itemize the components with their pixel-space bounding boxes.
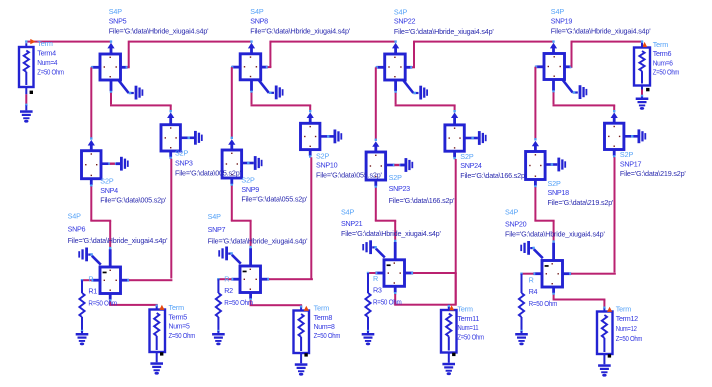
SNP21 left pin stub xyxy=(375,272,384,275)
svg-text:File='G:\data\005.s2p': File='G:\data\005.s2p' xyxy=(100,196,167,205)
SNP8 pin3 stub (left) xyxy=(231,66,240,69)
SNP17 pin2 + ground xyxy=(624,129,646,143)
wire SNP6 to Term5 xyxy=(109,301,158,307)
svg-text:S4P: S4P xyxy=(208,212,222,221)
wire top chain xyxy=(414,41,554,43)
label Term12 xyxy=(616,304,643,343)
svg-text:File='G:\data\Hbride_xiugai4.s: File='G:\data\Hbride_xiugai4.s4p' xyxy=(341,229,441,238)
Term4 pin2 stub xyxy=(25,87,33,94)
wire SNP20 right to node xyxy=(571,273,616,275)
SNP6 right pin stub xyxy=(121,279,130,282)
SNP10 pin1 (top) xyxy=(307,112,314,123)
svg-text:S2P: S2P xyxy=(460,152,474,161)
SNP10 pin3 stub (bottom) xyxy=(309,150,312,158)
svg-text:SNP20: SNP20 xyxy=(505,219,527,228)
SNP7 bottom pin stub xyxy=(249,293,252,301)
S4P SNP20 box xyxy=(542,261,563,288)
wire SNP19 to Term6 (top wire) xyxy=(572,41,643,43)
SNP17 pin1 (top) xyxy=(611,112,618,123)
svg-text:Z=50 Ohm: Z=50 Ohm xyxy=(457,333,484,342)
svg-text:R=50 Ohm: R=50 Ohm xyxy=(224,298,253,307)
svg-text:SNP6: SNP6 xyxy=(68,225,86,234)
svg-text:R4: R4 xyxy=(529,287,538,296)
wire SNP7 to Term8 xyxy=(250,300,303,308)
svg-text:SNP22: SNP22 xyxy=(394,17,416,26)
svg-text:SNP7: SNP7 xyxy=(208,225,226,234)
svg-text:Term: Term xyxy=(169,303,185,312)
svg-text:Num=5: Num=5 xyxy=(169,322,190,331)
SNP21 right pin stub xyxy=(405,272,414,275)
svg-text:S2P: S2P xyxy=(389,173,403,182)
SNP9 pin3 stub (bottom) xyxy=(230,178,233,186)
label R1 xyxy=(88,275,117,308)
label Term5 xyxy=(169,303,196,340)
wire SNP21 right to node xyxy=(413,272,457,274)
Term Term4 Num=4 Z=50 Ohm xyxy=(19,39,36,87)
wire SNP6 right to node xyxy=(129,279,172,281)
wire SNP5 right to top wire xyxy=(127,41,129,69)
wire SNP19 right to top wire xyxy=(571,41,573,68)
wire SNP19 to SNP17 xyxy=(553,92,616,112)
svg-text:S2P: S2P xyxy=(620,150,634,159)
ground (SNP8 pin4) xyxy=(259,80,284,99)
svg-text:Z=50 Ohm: Z=50 Ohm xyxy=(169,331,196,340)
svg-text:S4P: S4P xyxy=(394,7,408,16)
svg-text:SNP3: SNP3 xyxy=(175,158,193,167)
wire SNP23 to SNP21 xyxy=(375,188,397,242)
wire node down (col3) xyxy=(455,273,457,305)
label SNP3 xyxy=(175,149,242,178)
S4P SNP21 box xyxy=(384,260,405,287)
svg-text:File='G:\data\Hbride_xiugai4.s: File='G:\data\Hbride_xiugai4.s4p' xyxy=(250,27,350,36)
svg-text:SNP18: SNP18 xyxy=(548,188,570,197)
svg-text:S2P: S2P xyxy=(100,177,114,186)
svg-text:Term: Term xyxy=(457,305,473,314)
ground (SNP6) xyxy=(78,248,101,265)
svg-text:File='G:\data\Hbride_xiugai4.s: File='G:\data\Hbride_xiugai4.s4p' xyxy=(109,27,209,36)
SNP6 bottom pin stub xyxy=(109,294,112,302)
S4P SNP19 box xyxy=(544,54,565,80)
Term12 pin2 stub xyxy=(603,354,611,360)
wire SNP19 to SNP18 xyxy=(534,67,536,141)
wire Term6 to ground xyxy=(641,90,643,98)
svg-text:Num=8: Num=8 xyxy=(314,322,335,331)
svg-text:S2P: S2P xyxy=(548,179,562,188)
SNP6 pin1 (top) xyxy=(109,249,112,267)
svg-text:S4P: S4P xyxy=(505,208,519,217)
wire SNP4 to SNP6 xyxy=(90,186,111,249)
wire SNP18 to SNP20 xyxy=(534,187,554,243)
svg-text:Num=4: Num=4 xyxy=(37,58,57,67)
wire top chain xyxy=(270,41,395,43)
SNP20 pin1 (top) xyxy=(552,243,555,261)
svg-text:SNP4: SNP4 xyxy=(100,186,118,195)
SNP18 pin2 + ground xyxy=(545,158,566,172)
SNP4 pin2 + ground xyxy=(101,157,129,171)
svg-text:R=50 Ohm: R=50 Ohm xyxy=(373,298,402,307)
svg-text:S4P: S4P xyxy=(68,212,82,221)
wire SNP22 to SNP24 xyxy=(395,93,456,113)
ground (SNP5 pin4) xyxy=(119,81,144,100)
label R3 xyxy=(373,274,402,307)
SNP7 right pin stub xyxy=(261,278,270,281)
svg-text:S4P: S4P xyxy=(109,7,123,16)
wire SNP20 to R4 xyxy=(520,273,533,275)
svg-text:File='G:\data\055.s2p': File='G:\data\055.s2p' xyxy=(316,170,383,179)
label Term6 xyxy=(653,40,680,77)
S2P SNP9 box xyxy=(222,150,242,178)
SNP17 pin3 stub (bottom) xyxy=(613,150,616,158)
label SNP18 xyxy=(548,179,615,207)
SNP9 pin2 + ground xyxy=(242,156,263,170)
svg-text:SNP19: SNP19 xyxy=(551,16,573,25)
svg-text:R2: R2 xyxy=(224,286,233,295)
wire SNP22 right to top wire xyxy=(412,41,415,69)
label Term4 xyxy=(37,39,64,77)
SNP20 left pin stub xyxy=(533,272,542,275)
label SNP23 xyxy=(389,173,456,205)
wire SNP8 to SNP9 xyxy=(231,67,233,139)
wire SNP8 right to top wire xyxy=(268,41,272,69)
svg-text:Term4: Term4 xyxy=(37,49,56,58)
wire SNP5 to SNP4 xyxy=(90,67,92,139)
S2P SNP18 box xyxy=(526,152,546,180)
S4P SNP6 box xyxy=(100,267,121,294)
wire SNP7 to R2 xyxy=(217,278,231,280)
ground (R4) xyxy=(515,331,528,345)
resistor R1 R=50 Ohm xyxy=(79,280,84,332)
label SNP10 xyxy=(316,151,383,179)
ground (Term4) xyxy=(20,105,33,122)
SNP4 pin3 stub (bottom) xyxy=(90,179,93,187)
Term Term6 Num=6 Z=50 Ohm xyxy=(634,40,650,85)
svg-text:File='G:\data\219.s2p': File='G:\data\219.s2p' xyxy=(548,198,615,207)
SNP23 pin3 stub (bottom) xyxy=(374,180,377,188)
SNP7 left pin stub xyxy=(231,278,240,281)
SNP19 pin3 stub (left) xyxy=(535,65,544,68)
Term Term12 xyxy=(597,307,613,354)
SNP22 pin1 (top) xyxy=(392,40,399,54)
Term5 pin2 stub xyxy=(156,352,164,358)
SNP8 pin1 (top) xyxy=(248,40,255,53)
wire SNP17 down xyxy=(614,157,616,272)
ground (Term11) xyxy=(442,358,455,375)
svg-text:Term5: Term5 xyxy=(169,312,188,321)
svg-text:Num=6: Num=6 xyxy=(653,58,673,67)
ground (Term8) xyxy=(295,359,308,376)
resistor R4 R=50 Ohm xyxy=(519,274,524,332)
S2P SNP23 box xyxy=(366,152,386,180)
S4P SNP8 box xyxy=(240,54,261,80)
wire SNP5 to SNP3 xyxy=(110,93,172,113)
SNP22 pin bottom stub xyxy=(394,80,397,93)
svg-text:SNP9: SNP9 xyxy=(241,185,259,194)
label R2 xyxy=(224,274,253,307)
resistor R2 R=50 Ohm xyxy=(216,279,221,332)
svg-text:R: R xyxy=(88,275,93,284)
SNP3 pin1 (top) xyxy=(167,112,174,124)
label SNP4 xyxy=(100,177,167,205)
wire SNP6 to R1 xyxy=(81,279,92,281)
svg-text:R: R xyxy=(529,275,534,284)
SNP19 pin1 (top) xyxy=(550,40,557,53)
Term6 pin2 stub xyxy=(641,86,650,92)
wire SNP9 to SNP7 xyxy=(231,186,252,249)
svg-text:Term11: Term11 xyxy=(457,314,479,323)
SNP6 left pin stub xyxy=(91,279,100,282)
svg-text:Term8: Term8 xyxy=(314,313,333,322)
svg-text:SNP23: SNP23 xyxy=(389,184,411,193)
SNP3 pin2 + ground xyxy=(180,131,202,145)
svg-text:SNP21: SNP21 xyxy=(341,219,363,228)
SNP22 pin2 stub (right) xyxy=(405,66,412,69)
wire SNP3 down xyxy=(170,159,172,279)
S4P SNP7 box xyxy=(240,266,261,293)
svg-text:File='G:\data\005.s2p': File='G:\data\005.s2p' xyxy=(175,169,242,178)
Term Term5 xyxy=(150,305,166,352)
SNP5 pin1 (top) xyxy=(107,40,114,54)
svg-text:File='G:\data\Hbride_xiugai4.s: File='G:\data\Hbride_xiugai4.s4p' xyxy=(505,229,605,238)
S4P SNP22 box xyxy=(385,54,406,80)
svg-text:Term: Term xyxy=(37,39,53,48)
svg-text:R3: R3 xyxy=(373,286,382,295)
wire SNP21 to Term11 xyxy=(394,294,457,307)
Term11 pin2 stub xyxy=(448,353,456,359)
svg-text:R=50 Ohm: R=50 Ohm xyxy=(88,298,117,307)
ground (SNP20) xyxy=(520,241,543,258)
label SNP7 xyxy=(208,212,308,246)
label SNP21 xyxy=(341,208,441,239)
label SNP24 xyxy=(460,152,527,180)
wire Term4 to ground xyxy=(25,94,27,106)
svg-text:Z=50 Ohm: Z=50 Ohm xyxy=(616,334,643,343)
svg-text:Z=50 Ohm: Z=50 Ohm xyxy=(314,331,341,340)
svg-text:Term12: Term12 xyxy=(616,314,638,323)
svg-text:SNP17: SNP17 xyxy=(620,159,642,168)
wire SNP20 to Term12 xyxy=(553,295,606,309)
wire top chain xyxy=(129,41,252,43)
SNP24 pin2 + ground xyxy=(464,131,486,145)
svg-text:SNP24: SNP24 xyxy=(460,161,482,170)
label SNP22 xyxy=(394,7,494,36)
SNP23 pin2 + ground xyxy=(386,158,414,172)
svg-text:S2P: S2P xyxy=(241,175,255,184)
Term Term8 xyxy=(294,306,310,353)
svg-text:Term6: Term6 xyxy=(653,49,672,58)
wire SNP22 to SNP23 xyxy=(375,67,377,141)
label SNP20 xyxy=(505,208,605,239)
Term Term11 xyxy=(441,305,457,352)
svg-text:Z=50 Ohm: Z=50 Ohm xyxy=(37,68,64,77)
wire SNP8 to SNP10 xyxy=(251,93,312,113)
svg-text:Term: Term xyxy=(616,304,632,313)
ground (R3) xyxy=(362,331,375,345)
ground (Term5) xyxy=(150,358,163,375)
svg-text:S4P: S4P xyxy=(551,7,565,16)
label SNP9 xyxy=(241,175,308,203)
label SNP6 xyxy=(68,212,168,246)
svg-text:File='G:\data\Hbride_xiugai4.s: File='G:\data\Hbride_xiugai4.s4p' xyxy=(394,27,494,36)
S4P SNP5 box xyxy=(100,54,121,80)
SNP24 pin1 (top) xyxy=(451,112,458,125)
label SNP19 xyxy=(551,7,651,36)
SNP8 pin2 stub (right) xyxy=(261,66,268,69)
SNP10 pin2 + ground xyxy=(320,130,342,144)
wire SNP7 right to node xyxy=(269,278,313,280)
label SNP5 xyxy=(109,7,209,36)
wire SNP10 down xyxy=(310,157,312,278)
S2P SNP24 box xyxy=(445,125,464,151)
SNP24 pin3 stub (bottom) xyxy=(453,151,456,159)
svg-text:File='G:\data\166.s2p': File='G:\data\166.s2p' xyxy=(389,196,456,205)
ground (Term12) xyxy=(598,360,611,377)
svg-text:S2P: S2P xyxy=(316,151,330,160)
SNP23 pin1 (top) xyxy=(372,141,379,152)
resistor R3 R=50 Ohm xyxy=(365,273,370,332)
svg-text:Z=50 Ohm: Z=50 Ohm xyxy=(653,68,680,77)
Term8 pin2 stub xyxy=(300,353,308,359)
SNP5 pin bottom stub xyxy=(110,80,113,93)
svg-text:File='G:\data\Hbride_xiugai4.s: File='G:\data\Hbride_xiugai4.s4p' xyxy=(208,237,308,246)
label Term11 xyxy=(457,305,484,342)
SNP19 pin bottom stub xyxy=(552,80,555,93)
SNP19 pin2 stub (right) xyxy=(565,65,573,68)
SNP9 pin1 (top) xyxy=(228,139,235,150)
svg-text:File='G:\data\219.s2p': File='G:\data\219.s2p' xyxy=(620,169,687,178)
ground (SNP21) xyxy=(362,240,385,257)
svg-text:S4P: S4P xyxy=(341,208,355,217)
label SNP17 xyxy=(620,150,687,178)
svg-text:R=50 Ohm: R=50 Ohm xyxy=(529,299,558,308)
wire SNP24 down xyxy=(455,159,457,304)
SNP20 bottom pin stub xyxy=(552,287,555,295)
svg-text:SNP10: SNP10 xyxy=(316,161,338,170)
ground (R2) xyxy=(212,331,225,345)
ground (SNP19 pin4) xyxy=(563,80,588,99)
svg-text:File='G:\data\166.s2p': File='G:\data\166.s2p' xyxy=(460,171,527,180)
wire SNP21 to R3 xyxy=(367,272,376,274)
SNP5 pin2 stub (right) xyxy=(121,66,129,69)
svg-text:Num=12: Num=12 xyxy=(616,324,637,333)
svg-text:SNP5: SNP5 xyxy=(109,16,127,25)
S2P SNP3 box xyxy=(161,125,180,151)
svg-text:File='G:\data\Hbride_xiugai4.s: File='G:\data\Hbride_xiugai4.s4p' xyxy=(68,236,168,245)
S2P SNP10 box xyxy=(301,123,320,149)
SNP8 pin bottom stub xyxy=(250,80,253,93)
svg-text:S2P: S2P xyxy=(175,149,189,158)
svg-text:Num=11: Num=11 xyxy=(457,323,478,332)
SNP18 pin1 (top) xyxy=(532,141,539,152)
ground (Term6) xyxy=(636,97,649,110)
svg-text:R1: R1 xyxy=(88,286,97,295)
svg-text:R: R xyxy=(224,274,229,283)
S2P SNP17 box xyxy=(605,123,624,149)
SNP21 pin1 (top) xyxy=(394,242,397,260)
label R4 xyxy=(529,275,558,308)
SNP4 pin1 (top) xyxy=(88,140,95,151)
SNP7 pin1 (top) xyxy=(249,248,252,266)
SNP3 pin3 stub (bottom) xyxy=(169,151,172,159)
SNP18 pin3 stub (bottom) xyxy=(534,180,537,188)
S2P SNP4 box xyxy=(82,151,102,179)
svg-text:File='G:\data\055.s2p': File='G:\data\055.s2p' xyxy=(241,195,308,204)
svg-text:S4P: S4P xyxy=(250,7,264,16)
SNP21 bottom pin stub xyxy=(394,286,397,294)
label SNP8 xyxy=(250,7,350,36)
svg-text:R: R xyxy=(373,274,378,283)
svg-text:Term: Term xyxy=(314,304,330,313)
svg-text:File='G:\data\Hbride_xiugai4.s: File='G:\data\Hbride_xiugai4.s4p' xyxy=(551,27,651,36)
svg-text:SNP8: SNP8 xyxy=(250,16,268,25)
label Term8 xyxy=(314,304,341,341)
ground (R1) xyxy=(76,331,89,345)
SNP5 pin3 stub (left) xyxy=(91,66,100,69)
ground (SNP22 pin4) xyxy=(404,81,429,100)
SNP22 pin3 stub (left) xyxy=(376,66,385,69)
SNP20 right pin stub xyxy=(563,272,572,275)
ground (SNP7) xyxy=(218,247,241,264)
svg-text:Term: Term xyxy=(653,40,669,49)
wire Term4 to SNP5 port1 (top wire) xyxy=(25,41,111,43)
